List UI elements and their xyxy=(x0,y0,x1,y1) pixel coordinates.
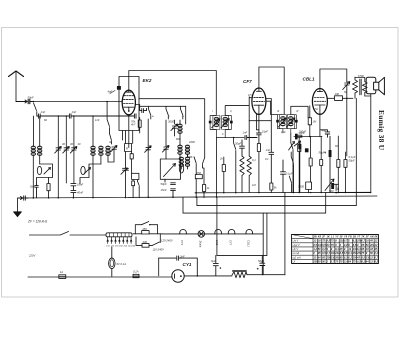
scale lamp xyxy=(109,247,115,276)
band switch bus xyxy=(139,105,186,107)
trimmer in osc box xyxy=(164,164,176,177)
wire L2 bottoms xyxy=(93,156,108,198)
capacitor 15nF left xyxy=(35,184,38,198)
switch lower det xyxy=(289,176,291,193)
svg-text:40nF: 40nF xyxy=(77,191,83,195)
rectifier tube CY1 xyxy=(172,270,184,282)
svg-text:(5nF: (5nF xyxy=(30,185,36,189)
switch S4a xyxy=(194,157,196,175)
bus AVC dotted xyxy=(195,192,371,194)
feedback pot xyxy=(306,179,334,193)
output transformer primary xyxy=(355,78,367,97)
heater right return xyxy=(263,213,285,275)
svg-text:UK: UK xyxy=(370,235,374,239)
svg-text:III: III xyxy=(277,109,279,113)
CBL1 cathode wire xyxy=(319,114,321,136)
fuse mains xyxy=(59,275,66,279)
svg-text:EK2: EK2 xyxy=(143,78,152,83)
svg-text:YY: YY xyxy=(335,235,339,239)
heater line start xyxy=(133,233,162,235)
capacitor EK2 side xyxy=(140,108,147,112)
svg-text:CF7: CF7 xyxy=(229,240,233,246)
osc coil lower b xyxy=(185,157,189,166)
svg-text:4pF: 4pF xyxy=(108,90,113,94)
svg-text:50µF: 50µF xyxy=(349,159,356,163)
IFT1 trimmer S xyxy=(221,119,229,128)
svg-text:1nF: 1nF xyxy=(95,118,100,122)
svg-text:4k7: 4k7 xyxy=(131,123,136,127)
svg-text:45: 45 xyxy=(369,239,373,243)
switch antenna xyxy=(34,103,37,116)
svg-text:FB: FB xyxy=(348,235,352,239)
EK2 top cap wire to IFT1 xyxy=(129,71,217,115)
earth connector xyxy=(18,196,28,200)
IFT1 left vertical xyxy=(185,106,187,124)
svg-text:Eumig 38 U: Eumig 38 U xyxy=(377,110,386,151)
svg-text:Ua V: Ua V xyxy=(293,239,299,243)
svg-text:45: 45 xyxy=(339,247,343,251)
svg-text:45: 45 xyxy=(356,255,360,259)
capacitor 1nF input xyxy=(37,114,69,118)
IFT2 trimmer S xyxy=(287,118,295,127)
capacitor 100pF blob xyxy=(305,148,309,152)
switch S3c xyxy=(181,106,183,119)
tube EK2 xyxy=(122,90,135,115)
wire IF bottom xyxy=(216,137,244,139)
svg-text:100: 100 xyxy=(335,92,340,96)
trimmer C-gang1 xyxy=(55,147,62,154)
trimmer cap EK2 cathode xyxy=(121,168,129,198)
trimmer band column xyxy=(146,145,151,198)
svg-text:220V: 220V xyxy=(28,254,35,258)
B+ bus xyxy=(184,275,232,277)
svg-text:CY1: CY1 xyxy=(180,240,184,246)
voltage table xyxy=(292,235,379,264)
svg-text:2F: 2F xyxy=(365,235,369,239)
switch S6 xyxy=(291,133,293,193)
switch S3a xyxy=(148,106,151,145)
svg-text:Ig2 mA: Ig2 mA xyxy=(293,255,301,259)
speaker xyxy=(366,77,384,95)
selector contacts xyxy=(107,237,132,244)
IFT1 cap P xyxy=(209,121,212,124)
resistor AF dark xyxy=(298,144,301,149)
svg-text:8,5: 8,5 xyxy=(375,259,379,263)
coil L2b xyxy=(99,146,103,155)
svg-text:6V 0,1A: 6V 0,1A xyxy=(117,262,127,266)
electrolytic 50uF xyxy=(260,255,265,274)
osc padder coil xyxy=(179,120,181,124)
EK2 cathode wire xyxy=(128,115,130,148)
svg-text:125-240V: 125-240V xyxy=(161,239,173,243)
speaker return wire xyxy=(365,94,371,193)
svg-text:50pF: 50pF xyxy=(28,96,34,100)
outer loop vertical xyxy=(284,193,286,275)
osc coil T1b xyxy=(185,145,189,154)
caps left of CBL1 xyxy=(281,160,286,193)
switch bypass loop xyxy=(135,222,157,234)
wire L1 bottoms xyxy=(33,156,39,198)
svg-text:50pF: 50pF xyxy=(161,182,167,186)
voltage selector xyxy=(106,233,132,237)
wire L1b top xyxy=(39,116,41,146)
CF grid loop xyxy=(249,97,271,121)
lower voltage branch xyxy=(136,234,160,247)
trimmer in left sub box xyxy=(44,168,51,175)
capacitor 1nF coupling xyxy=(245,136,257,140)
osc coil sub box left xyxy=(37,164,53,184)
volume pot arrow xyxy=(289,142,295,151)
heater hump EK2 xyxy=(215,229,222,233)
grid feedthrough capacitor xyxy=(117,86,120,89)
svg-text:3000: 3000 xyxy=(168,120,174,124)
junction dots y116 xyxy=(58,115,75,117)
svg-text:1nF: 1nF xyxy=(41,110,46,114)
wire AF coupling xyxy=(294,136,322,138)
ground symbol xyxy=(14,198,22,217)
svg-text:15nF: 15nF xyxy=(161,188,167,192)
tube CF7 xyxy=(252,88,266,114)
svg-text:Skala: Skala xyxy=(199,241,203,248)
coil L2a xyxy=(91,146,95,155)
tuning gang column 1 xyxy=(57,116,59,198)
IFT1 secondary top to CF grid xyxy=(225,106,249,116)
capacitor 30nF xyxy=(177,256,198,276)
resistor EK2 cathode box xyxy=(125,144,132,169)
svg-text:15pF: 15pF xyxy=(262,129,268,133)
switch S3b xyxy=(166,106,168,119)
switch small xyxy=(137,181,139,198)
capacitor into EK2 box xyxy=(134,114,136,118)
chassis B mark xyxy=(334,184,339,190)
svg-text:K8: K8 xyxy=(318,235,322,239)
svg-text:0,7: 0,7 xyxy=(375,255,379,259)
antenna coupling capacitor 50pF xyxy=(16,99,34,103)
electrolytic 8uF xyxy=(213,255,218,275)
mains line xyxy=(28,276,172,278)
pot arrow AF xyxy=(294,141,301,146)
heater hump CBL1 xyxy=(246,229,253,233)
coil L2c xyxy=(106,146,110,155)
svg-text:2k: 2k xyxy=(219,157,223,161)
switch right xyxy=(291,152,293,193)
svg-text:8K: 8K xyxy=(375,235,378,239)
osc sub box xyxy=(160,159,183,179)
output coupling component xyxy=(335,96,353,101)
switch S5 xyxy=(234,138,236,193)
trimmer C-gang3 xyxy=(70,147,77,154)
IFT1 cap S xyxy=(230,121,233,124)
capacitor 1nF second xyxy=(69,114,134,118)
bus return 3 xyxy=(183,193,326,214)
svg-text:CBL1: CBL1 xyxy=(247,240,251,247)
osc coil sub box mid xyxy=(80,164,101,184)
main ground bus xyxy=(18,196,377,198)
capacitor 40nF mid xyxy=(71,190,76,197)
wire L1 column xyxy=(33,116,35,146)
capacitor AF dark xyxy=(295,134,298,140)
switch S4b xyxy=(203,158,205,185)
svg-text:0,1: 0,1 xyxy=(265,157,269,161)
svg-text:R: R xyxy=(126,147,128,151)
osc coil T1a xyxy=(178,145,182,154)
svg-text:Uk V: Uk V xyxy=(293,247,299,251)
capacitor 10nF mid xyxy=(71,184,76,191)
capacitor 50pF osc xyxy=(165,179,175,184)
resistor EK2 bias xyxy=(130,154,133,174)
scan border frame xyxy=(2,28,399,298)
capacitor 10nF det xyxy=(297,135,302,137)
IFT2 trimmer P xyxy=(278,118,286,127)
svg-text:Ug2 V: Ug2 V xyxy=(293,243,300,247)
svg-text:CY1: CY1 xyxy=(183,262,192,267)
resistor CF cathode xyxy=(257,144,260,193)
electrolytic right xyxy=(325,136,332,192)
svg-text:3000: 3000 xyxy=(298,185,304,189)
svg-text:8µF: 8µF xyxy=(211,259,216,263)
IFT1 coil S xyxy=(222,116,229,130)
IFT2 secondary top wire xyxy=(291,106,308,117)
CF top cap wire xyxy=(259,67,284,114)
svg-text:30pF: 30pF xyxy=(235,142,241,146)
capacitor anode column xyxy=(269,121,274,183)
svg-text:50µF: 50µF xyxy=(258,259,265,263)
resistor left sub xyxy=(47,178,50,198)
svg-text:2F: 2F xyxy=(321,235,325,239)
resistor tone xyxy=(347,77,358,98)
capacitor 15nF osc xyxy=(171,189,176,198)
resistor padding horizontal xyxy=(195,175,202,198)
heater chain wire xyxy=(162,233,263,235)
wire antenna bus to EK2 grid xyxy=(34,101,122,103)
svg-text:Uf: Uf xyxy=(293,259,296,263)
heater hump CF7 xyxy=(228,229,235,233)
wire osc coils bottom xyxy=(180,155,192,160)
svg-text:110-240V: 110-240V xyxy=(153,248,165,252)
svg-text:250: 250 xyxy=(196,171,202,175)
tube CBL1 xyxy=(312,89,327,115)
resistor R450 xyxy=(142,231,149,234)
resistor right mid xyxy=(309,136,312,182)
svg-text:0,2: 0,2 xyxy=(375,251,379,255)
svg-text:ZF = 128 kHz: ZF = 128 kHz xyxy=(27,220,48,224)
antenna xyxy=(9,71,24,102)
svg-text:1A: 1A xyxy=(60,270,63,274)
svg-text:1nF: 1nF xyxy=(72,110,77,114)
svg-text:100pF: 100pF xyxy=(299,130,307,134)
IFT2 coil S xyxy=(287,115,294,129)
EK2 shield box xyxy=(119,77,139,131)
svg-text:50µF: 50µF xyxy=(319,151,326,155)
svg-text:0,1µF: 0,1µF xyxy=(286,172,293,176)
svg-text:0,2A: 0,2A xyxy=(133,270,139,274)
vertical to osc coils xyxy=(179,134,181,146)
heater hump CY1 xyxy=(180,229,187,233)
speaker return to bus xyxy=(336,192,371,194)
CF cathode wire xyxy=(258,114,260,132)
wire column x93 xyxy=(92,116,94,146)
svg-text:0,5: 0,5 xyxy=(248,93,252,97)
IFT2 cap P xyxy=(276,120,279,123)
svg-text:1K: 1K xyxy=(327,235,330,239)
wire screen feed to IFT1 xyxy=(139,99,205,158)
osc trimmer column xyxy=(172,120,176,136)
fuse 2 xyxy=(133,274,139,277)
svg-text:0,1: 0,1 xyxy=(252,158,256,162)
IFT1 trimmer P xyxy=(212,119,220,128)
band switch S2a xyxy=(107,102,111,145)
svg-text:3B: 3B xyxy=(353,235,356,239)
CBL1 anode wire xyxy=(327,97,334,99)
IFT2 coil P xyxy=(279,115,286,129)
trimmer L2 xyxy=(110,146,117,153)
B+ distribution wire xyxy=(217,254,267,256)
tuning gang column 3 xyxy=(73,116,75,183)
osc coil lower a xyxy=(179,157,183,166)
resistor small xyxy=(132,181,135,198)
coil L1a xyxy=(31,146,35,155)
output transformer core xyxy=(360,79,361,95)
EK2 screen resistor xyxy=(135,105,141,134)
trimmer osc gang xyxy=(162,146,169,153)
B+ right column wire xyxy=(346,98,348,156)
extra value labels xyxy=(44,74,364,187)
capacitor 30pF det xyxy=(240,140,245,156)
svg-text:CF7: CF7 xyxy=(243,79,252,84)
resistor zigzag det2 xyxy=(247,121,251,193)
filter choke xyxy=(232,271,263,278)
resistor 1k osc xyxy=(203,185,206,198)
B+ wire rectifier xyxy=(159,257,176,259)
tone capacitor trimmer xyxy=(343,80,350,90)
screen feed resistor R right1 xyxy=(337,136,340,193)
svg-text:1nF: 1nF xyxy=(243,131,248,135)
svg-text:7K: 7K xyxy=(361,235,364,239)
svg-text:450: 450 xyxy=(142,227,147,231)
svg-text:CBL1: CBL1 xyxy=(303,77,315,82)
dial lamp symbol xyxy=(198,231,205,238)
bus return 2 xyxy=(197,98,356,205)
svg-text:3B: 3B xyxy=(313,235,316,239)
mains switch wire xyxy=(29,232,106,236)
resistor zigzag det1 xyxy=(240,156,244,193)
svg-text:400: 400 xyxy=(143,240,148,244)
resistor anode column xyxy=(270,183,273,193)
svg-text:0,1µF: 0,1µF xyxy=(349,155,356,159)
svg-text:1nF: 1nF xyxy=(281,130,286,134)
trimmer mid sub box xyxy=(84,168,91,175)
box EK2 lower xyxy=(132,173,139,181)
svg-text:Ia mA: Ia mA xyxy=(293,251,300,255)
screen feed resistor R right2 xyxy=(344,152,347,193)
CF anode wire xyxy=(266,101,277,114)
svg-text:IV: IV xyxy=(296,109,299,113)
coil L1b xyxy=(38,146,42,155)
capacitor 15pF CF xyxy=(257,133,262,144)
tuning gang column 2 xyxy=(65,116,67,183)
svg-text:2000: 2000 xyxy=(188,140,195,144)
IFT1 coil P xyxy=(213,116,220,130)
IFT2 cap S xyxy=(295,120,298,123)
resistor volume xyxy=(298,137,301,193)
CBL1 grid resistor xyxy=(308,106,311,137)
trimmer C-gang2 xyxy=(63,147,70,154)
svg-text:1nF: 1nF xyxy=(266,148,271,152)
svg-text:3nF: 3nF xyxy=(180,254,185,258)
resistor 2k AVC xyxy=(222,157,225,193)
EK2 box bottom wires xyxy=(123,131,133,144)
CBL1 top cap wire xyxy=(320,69,347,89)
resistor small right mid xyxy=(320,136,323,192)
